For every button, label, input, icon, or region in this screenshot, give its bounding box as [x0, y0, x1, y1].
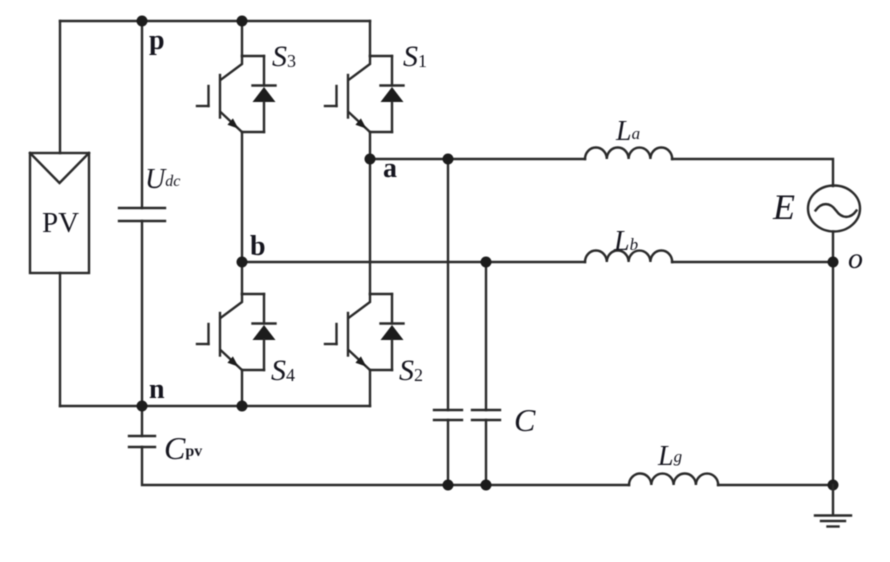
wire Ca lower leg — [447, 420, 449, 485]
PV panel — [30, 153, 89, 273]
wire Udc lower leg — [141, 221, 143, 406]
wire PV bottom leg — [59, 273, 61, 406]
node ground junction — [828, 480, 839, 491]
inductor La — [585, 148, 672, 160]
svg-text:Lg: Lg — [657, 441, 682, 472]
inductor Lg — [629, 474, 718, 486]
wire Cb lower leg — [485, 420, 487, 485]
svg-text:E: E — [772, 187, 795, 227]
svg-text:La: La — [615, 116, 640, 147]
wire S1 collector — [369, 21, 371, 56]
node n — [137, 401, 148, 412]
wire Cpv upper leg — [141, 406, 143, 436]
node Ca bottom junction — [443, 480, 454, 491]
svg-text:PV: PV — [42, 207, 79, 239]
node Cb bottom junction — [481, 480, 492, 491]
svg-text:S4: S4 — [271, 354, 295, 387]
node S4 bottom junction — [237, 401, 248, 412]
capacitor Udc — [119, 208, 165, 221]
svg-text:n: n — [149, 374, 165, 405]
wire Cb upper leg — [485, 262, 487, 410]
wire a rail — [370, 158, 585, 160]
transistor S1 — [325, 56, 404, 132]
ground — [815, 485, 851, 527]
transistor S2 — [325, 294, 404, 370]
wire S1 emitter to node a — [369, 132, 371, 159]
svg-text:S2: S2 — [399, 354, 423, 387]
capacitor Cb — [472, 410, 500, 420]
wire Ca upper leg — [447, 159, 449, 410]
wire Udc upper leg — [141, 21, 143, 208]
wire bottom rail right — [718, 484, 833, 486]
capacitor Ca — [434, 410, 462, 420]
svg-text:a: a — [383, 153, 397, 184]
inductor Lb — [585, 251, 672, 262]
svg-text:b: b — [250, 231, 266, 262]
svg-text:Lb: Lb — [613, 226, 638, 257]
svg-text:S1: S1 — [403, 40, 427, 73]
node Ca tap — [443, 154, 454, 165]
svg-text:p: p — [149, 25, 165, 56]
node a — [365, 154, 376, 165]
wire b rail — [242, 261, 585, 263]
source E — [808, 186, 860, 232]
wire Lb to node o — [672, 261, 833, 263]
wire S2 collector from node a — [369, 159, 371, 294]
wire n rail — [60, 405, 370, 407]
wire S2 emitter — [369, 370, 371, 406]
wire S3 collector — [241, 21, 243, 56]
node b — [237, 257, 248, 268]
node o — [828, 257, 839, 268]
node Cb tap — [481, 257, 492, 268]
capacitor Cpv — [129, 436, 155, 447]
node p junction — [137, 16, 148, 27]
svg-text:Udc: Udc — [145, 164, 180, 195]
wire Cpv lower leg and bottom rail left — [142, 447, 629, 485]
svg-text:C: C — [514, 402, 536, 438]
wire S4 collector — [241, 262, 243, 294]
node S3 top junction — [237, 16, 248, 27]
svg-text:o: o — [848, 242, 863, 275]
wire node o down to ground rail — [832, 262, 834, 485]
wire top p rail — [60, 20, 370, 22]
wire La to source — [672, 159, 833, 186]
wire source to node o — [832, 232, 834, 263]
svg-text:Cpv: Cpv — [164, 430, 202, 466]
transistor S4 — [197, 294, 276, 370]
wire S3 emitter to node b — [241, 132, 243, 262]
wire S4 emitter — [241, 370, 243, 406]
transistor S3 — [197, 56, 276, 132]
svg-text:S3: S3 — [272, 40, 296, 73]
wire PV top leg — [59, 21, 61, 153]
